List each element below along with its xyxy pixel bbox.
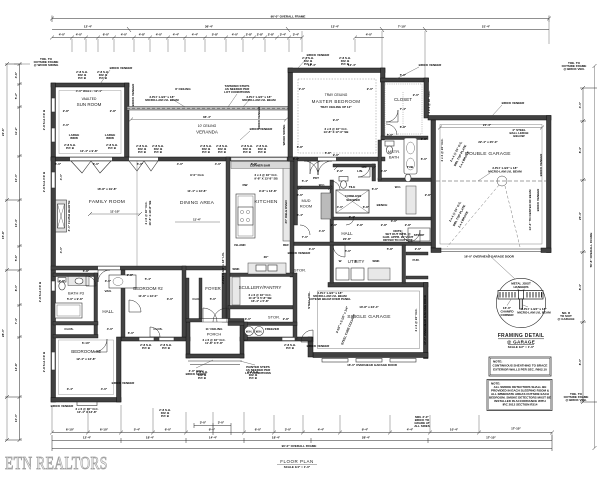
svg-text:21'-4": 21'-4" — [483, 123, 492, 127]
svg-text:7'-4": 7'-4" — [400, 107, 407, 111]
door arc master entry — [318, 161, 332, 175]
svg-text:5'-0": 5'-0" — [400, 73, 407, 77]
rotated brick veneer labels walls — [131, 83, 543, 345]
svg-text:4'-0": 4'-0" — [107, 327, 114, 331]
wall garage right — [547, 116, 552, 253]
porch step notes — [186, 360, 271, 376]
garage door marks single garage — [322, 359, 348, 363]
svg-text:BRICK VENEER: BRICK VENEER — [51, 404, 75, 408]
svg-text:5'-0": 5'-0" — [387, 133, 394, 137]
wall bedroom3 right — [117, 337, 122, 402]
svg-text:6'-0": 6'-0" — [165, 428, 172, 432]
svg-text:3'-0": 3'-0" — [245, 317, 252, 321]
svg-text:12'-4" x 9'-8": 12'-4" x 9'-8" — [80, 149, 99, 153]
svg-text:28'-0": 28'-0" — [1, 328, 5, 337]
svg-text:9'-4": 9'-4" — [209, 428, 216, 432]
svg-text:CLOSET: CLOSET — [394, 97, 412, 102]
wall bedroom2 right — [182, 266, 186, 337]
svg-text:5'-4": 5'-4" — [134, 428, 141, 432]
svg-text:12'-4": 12'-4" — [308, 63, 317, 67]
wall jog storage to garage — [308, 337, 313, 357]
room label sun room — [77, 97, 102, 107]
door arc bath3 — [86, 276, 96, 286]
door arc mstr bath — [358, 165, 370, 177]
garage interior dim 21'-4" — [438, 123, 544, 130]
wall master right step — [381, 68, 386, 82]
svg-text:5'-2": 5'-2" — [14, 92, 18, 99]
fireplace family room — [56, 200, 67, 232]
svg-text:2'-8": 2'-8" — [59, 279, 66, 283]
wall shower/mstrbath divider — [372, 164, 376, 181]
mstr wc — [385, 141, 394, 154]
left dim slashes — [5, 62, 22, 442]
single garage beam note — [309, 291, 351, 301]
steel ball ledge note — [509, 128, 528, 138]
tray ceiling dotted master — [298, 79, 376, 153]
svg-text:BRICK VENEER: BRICK VENEER — [536, 188, 540, 212]
family room dim string — [88, 210, 142, 217]
wall master bottom — [288, 157, 385, 161]
svg-text:P.P. B: P.P. B — [66, 146, 75, 150]
utility washer dryer — [336, 268, 390, 280]
wall bath3 right — [94, 273, 98, 337]
window labels bottom walls — [75, 343, 296, 418]
svg-text:9'-4": 9'-4" — [362, 428, 369, 432]
svg-text:4'-4": 4'-4" — [173, 33, 180, 37]
svg-text:DOUBLE GARAGE: DOUBLE GARAGE — [465, 151, 511, 157]
svg-text:P.P. B: P.P. B — [218, 150, 227, 154]
window labels above sunroom — [76, 70, 109, 80]
wall family bottom — [51, 266, 227, 270]
svg-text:@ BRICK VEN.: @ BRICK VEN. — [563, 67, 584, 71]
annotation min riser note bottom — [414, 415, 430, 428]
svg-text:11'-8" x 13'-0": 11'-8" x 13'-0" — [138, 294, 158, 298]
opening bar kitchen — [231, 158, 287, 161]
water heaters — [245, 327, 264, 336]
left header note TOE TO STUBBED FRAME — [14, 57, 59, 67]
svg-text:FLOOR PLAN: FLOOR PLAN — [280, 459, 314, 464]
svg-text:SCALE 1/4" = 1'-0": SCALE 1/4" = 1'-0" — [284, 465, 311, 469]
wall left outer lower — [51, 157, 56, 402]
family room ceiling break line — [136, 161, 138, 266]
inner outline sunroom — [59, 91, 121, 154]
wall bath3 top — [53, 273, 98, 277]
svg-text:VAULTED: VAULTED — [82, 97, 97, 101]
wall sunroom left — [51, 83, 56, 160]
middle cluster annotations — [297, 133, 432, 253]
svg-text:2'-8": 2'-8" — [110, 109, 117, 113]
svg-text:3'-0": 3'-0" — [391, 219, 398, 223]
svg-text:BATH: BATH — [389, 155, 399, 160]
bath3 vanity sink — [68, 277, 89, 286]
window bedroom2 bottom — [139, 337, 154, 340]
window label cluster template uses — [75, 53, 525, 418]
svg-text:WOOD SIDING: WOOD SIDING — [282, 124, 286, 145]
svg-text:2 x 4 @ 24" O.C.: 2 x 4 @ 24" O.C. — [414, 308, 418, 331]
svg-text:STOR.: STOR. — [294, 268, 306, 273]
svg-text:BATH #3: BATH #3 — [68, 291, 85, 296]
svg-text:3'-4": 3'-4" — [293, 33, 300, 37]
extra density bath3/bed zone — [59, 269, 290, 391]
svg-text:4'-0": 4'-0" — [337, 205, 344, 209]
wall garage left — [431, 120, 436, 248]
svg-text:22'-6": 22'-6" — [1, 127, 5, 136]
svg-text:2 x 4 @ 16" O.C.: 2 x 4 @ 16" O.C. — [427, 90, 431, 113]
svg-text:16'-4" x 5'-8": 16'-4" x 5'-8" — [251, 299, 270, 303]
svg-text:3'-0": 3'-0" — [218, 421, 225, 425]
svg-text:@ GARAGE: @ GARAGE — [507, 340, 535, 345]
svg-text:6'-10": 6'-10" — [66, 428, 75, 432]
svg-text:4'-0" FLUSH HEARTH: 4'-0" FLUSH HEARTH — [67, 201, 71, 232]
svg-text:2'-8": 2'-8" — [283, 317, 290, 321]
left wall rotated window labels — [38, 109, 46, 372]
svg-text:P.P. B: P.P. B — [154, 150, 163, 154]
svg-text:8'-0": 8'-0" — [14, 284, 18, 291]
svg-text:6'-8": 6'-8" — [363, 205, 370, 209]
svg-text:6'-10": 6'-10" — [100, 428, 109, 432]
wall foyer bottom — [186, 319, 244, 323]
svg-text:BELOW: BELOW — [513, 134, 524, 138]
dining dim string — [175, 218, 220, 223]
svg-text:W.C.: W.C. — [319, 183, 326, 187]
room label porch — [206, 327, 224, 337]
svg-text:TILE: TILE — [349, 185, 356, 189]
svg-text:4'-0": 4'-0" — [121, 33, 128, 37]
wall utility/single garage top — [328, 283, 428, 288]
svg-text:11'-10": 11'-10" — [110, 210, 120, 214]
door arc bedroom2 — [129, 300, 141, 312]
svg-text:18'-4": 18'-4" — [146, 436, 155, 440]
svg-text:13'-8" X 17'-0" SB: 13'-8" X 17'-0" SB — [324, 130, 350, 134]
svg-text:2'-8 S.H. P.P. B: 2'-8 S.H. P.P. B — [38, 281, 42, 302]
wall bedroom3 bottom — [51, 398, 121, 403]
svg-text:5'-4": 5'-4" — [145, 277, 152, 281]
door arc bedroom3 — [94, 339, 107, 352]
svg-text:2'-8": 2'-8" — [331, 223, 338, 227]
svg-text:2'-8": 2'-8" — [257, 33, 264, 37]
svg-text:4'-4": 4'-4" — [192, 33, 199, 37]
room label veranda — [196, 124, 218, 135]
svg-text:9'-8" x 13'-8": 9'-8" x 13'-8" — [259, 189, 278, 193]
diagonal stud note garage lower — [448, 200, 469, 228]
svg-text:KITCHEN: KITCHEN — [254, 199, 277, 205]
wall above shower — [333, 164, 375, 167]
dimension lines right — [558, 61, 597, 448]
inner outline single garage — [318, 291, 420, 349]
window storage bottom — [282, 337, 295, 340]
svg-text:10' CEILING: 10' CEILING — [198, 124, 217, 128]
svg-text:4'-8": 4'-8" — [139, 33, 146, 37]
svg-text:REF: REF — [283, 243, 289, 247]
svg-text:P.P. B: P.P. B — [78, 76, 87, 80]
svg-text:4'-4": 4'-4" — [318, 428, 325, 432]
right dim slashes — [581, 64, 597, 450]
svg-text:TRAY CEILING: TRAY CEILING — [325, 93, 348, 97]
svg-text:4'-4": 4'-4" — [407, 428, 414, 432]
opening family to hall — [98, 267, 120, 270]
window labels above master — [302, 56, 351, 66]
svg-text:13'-8" x 23'-4": 13'-8" x 23'-4" — [359, 305, 379, 309]
svg-text:4'-0": 4'-0" — [101, 387, 108, 391]
svg-text:WDW: WDW — [106, 136, 114, 140]
dimension lines left — [1, 64, 22, 440]
svg-text:MICRO-LAM LVL BEAM: MICRO-LAM LVL BEAM — [242, 98, 276, 102]
wall porch bottom — [186, 354, 244, 358]
window sunroom left 2 — [52, 128, 56, 142]
dimension line top tier2 — [52, 25, 549, 33]
svg-text:BENCH: BENCH — [377, 203, 388, 207]
wall kitchen right vertical — [290, 161, 294, 277]
svg-text:3'-8": 3'-8" — [421, 137, 428, 141]
porch steps — [188, 360, 242, 362]
svg-text:ROOM: ROOM — [300, 204, 312, 209]
svg-text:SINK: SINK — [232, 267, 240, 271]
svg-text:4'-0": 4'-0" — [366, 33, 373, 37]
svg-text:7'-10": 7'-10" — [398, 25, 407, 29]
svg-text:3'-0": 3'-0" — [200, 421, 207, 425]
svg-text:BRICK STOOP: BRICK STOOP — [186, 372, 207, 376]
dimension line bottom overall — [52, 435, 552, 451]
sunroom extra dims — [55, 109, 258, 166]
svg-text:2'-8 S.H. P.P. B: 2'-8 S.H. P.P. B — [42, 351, 46, 372]
svg-text:2'-6": 2'-6" — [415, 247, 422, 251]
svg-text:2'-8": 2'-8" — [246, 33, 253, 37]
wall garage door bottom — [431, 248, 551, 253]
svg-text:2 x 4 @ 24" O.C.: 2 x 4 @ 24" O.C. — [440, 138, 444, 161]
title floor plan — [277, 459, 317, 469]
svg-text:11'-4" x 13'-8": 11'-4" x 13'-8" — [187, 189, 207, 193]
svg-text:17'-10": 17'-10" — [486, 436, 496, 440]
svg-text:10'-0": 10'-0" — [14, 173, 18, 182]
svg-text:P.P. B: P.P. B — [202, 150, 211, 154]
svg-text:21'-4": 21'-4" — [482, 25, 491, 29]
room label mstr bath — [388, 149, 400, 160]
wall bottom storage run — [240, 337, 312, 341]
svg-text:P.P. B: P.P. B — [162, 346, 171, 350]
svg-text:MUD: MUD — [301, 198, 310, 203]
svg-text:4'-0": 4'-0" — [578, 101, 582, 108]
framing detail circle — [488, 254, 551, 328]
room label fur — [413, 258, 420, 262]
svg-text:EXTERIOR WALLS PER SEC. R602.1: EXTERIOR WALLS PER SEC. R602.10 — [493, 368, 547, 372]
svg-text:30" DBLE OVEN: 30" DBLE OVEN — [284, 200, 288, 223]
wall scullery bottom — [228, 306, 294, 310]
dimension line top overall 90'-0" — [50, 14, 551, 22]
hall bath upper tub (bath2) — [109, 275, 136, 288]
svg-text:FOYER: FOYER — [205, 286, 221, 291]
door arc master second — [304, 161, 318, 175]
svg-text:LIN.: LIN. — [357, 169, 363, 173]
window bath3 left — [52, 281, 56, 291]
svg-text:2'-0": 2'-0" — [337, 169, 344, 173]
wall scullery right / storage — [293, 273, 297, 339]
svg-text:WDW: WDW — [70, 136, 78, 140]
svg-text:5'-0": 5'-0" — [210, 297, 217, 301]
note box 2 — [487, 380, 552, 411]
svg-text:4'-0": 4'-0" — [215, 162, 222, 166]
svg-text:56'-8" OVERALL FRAME: 56'-8" OVERALL FRAME — [589, 233, 593, 268]
svg-text:2'-0": 2'-0" — [367, 87, 374, 91]
wall closet top — [381, 78, 429, 82]
svg-text:CLOS.: CLOS. — [64, 327, 73, 331]
svg-text:3'-4": 3'-4" — [280, 33, 287, 37]
svg-text:4'-0": 4'-0" — [232, 33, 239, 37]
svg-text:3'-0": 3'-0" — [285, 428, 292, 432]
window sunroom left 1 — [52, 98, 56, 112]
svg-text:HALL: HALL — [341, 231, 353, 236]
svg-text:2'-8 S.H. P.P. B: 2'-8 S.H. P.P. B — [42, 171, 46, 192]
svg-text:13'-4": 13'-4" — [331, 25, 340, 29]
wall master suite left — [288, 68, 293, 161]
wall bottom bedroom2/hall — [121, 337, 190, 341]
dimension line top tier3 with ticks — [50, 33, 384, 40]
window bedroom3 left — [52, 352, 56, 370]
svg-text:@ BRICK VEN.: @ BRICK VEN. — [565, 398, 586, 402]
wall utility left — [330, 245, 334, 283]
svg-text:6'-0": 6'-0" — [55, 162, 62, 166]
svg-text:36'-4": 36'-4" — [205, 25, 214, 29]
svg-text:9'-0": 9'-0" — [333, 153, 340, 157]
dimension line bottom tier B — [52, 436, 552, 444]
svg-text:2-PLY 1-3/4" x 18" LVL: 2-PLY 1-3/4" x 18" LVL — [221, 252, 225, 284]
door opening french sunroom-family — [70, 158, 112, 161]
wall mud room right — [330, 180, 334, 242]
wall clos bottom — [53, 335, 98, 339]
wall utility right — [402, 245, 406, 283]
kitchen island — [236, 194, 255, 238]
svg-text:36'-4": 36'-4" — [203, 115, 212, 119]
svg-text:10'-4": 10'-4" — [14, 218, 18, 227]
svg-text:4'-6": 4'-6" — [319, 229, 326, 233]
svg-text:4'-0": 4'-0" — [59, 33, 66, 37]
svg-text:4'-0": 4'-0" — [59, 246, 63, 253]
dimension extension verticals bottom — [52, 405, 552, 440]
mud room cubbies — [321, 193, 331, 219]
cabinet column right of bath — [406, 186, 416, 214]
svg-text:6'-0": 6'-0" — [128, 331, 135, 335]
svg-text:6'-8": 6'-8" — [297, 145, 304, 149]
svg-text:STEEL COL.: STEEL COL. — [307, 291, 311, 309]
svg-text:BRICK VENEER: BRICK VENEER — [502, 101, 526, 105]
svg-text:8'-0": 8'-0" — [578, 358, 582, 365]
svg-text:STOOP: STOOP — [414, 233, 424, 237]
wall kitchen bottom / scullery top — [230, 273, 294, 277]
svg-text:4'-0": 4'-0" — [59, 173, 63, 180]
svg-text:@ GARAGE: @ GARAGE — [558, 317, 575, 321]
master bedroom extra dims — [293, 63, 420, 161]
door arc closet — [386, 110, 398, 122]
svg-text:TRAY CEILING UP 12": TRAY CEILING UP 12" — [320, 105, 352, 109]
wall hall bottom / utility top — [294, 242, 431, 246]
svg-text:STOR.: STOR. — [268, 315, 280, 320]
svg-text:12'-4" x 13'-8": 12'-4" x 13'-8" — [76, 357, 96, 361]
mstr bath tub — [404, 138, 417, 174]
svg-text:ETN REALTORS: ETN REALTORS — [5, 455, 108, 474]
svg-text:2'-8": 2'-8" — [425, 193, 432, 197]
svg-text:BEDROOM #2: BEDROOM #2 — [133, 286, 163, 291]
svg-text:BRICK VENEER: BRICK VENEER — [110, 66, 134, 70]
svg-text:22'-4" x 25'-0": 22'-4" x 25'-0" — [478, 140, 498, 144]
svg-text:CLOS.: CLOS. — [153, 327, 162, 331]
svg-text:28'-4": 28'-4" — [362, 436, 371, 440]
svg-text:3'-0": 3'-0" — [167, 297, 174, 301]
svg-text:12'-4": 12'-4" — [348, 63, 357, 67]
svg-text:MICRO-LAM LVL BEAM: MICRO-LAM LVL BEAM — [517, 311, 551, 315]
wall mudroom left / kitchen — [294, 157, 298, 225]
wall fur closet — [406, 252, 428, 255]
svg-text:SINK: SINK — [372, 259, 380, 263]
svg-text:9'-0" CLG: 9'-0" CLG — [190, 173, 204, 177]
wall hall top master — [333, 217, 431, 220]
svg-text:5'-4": 5'-4" — [302, 179, 309, 183]
svg-text:SUN ROOM: SUN ROOM — [77, 102, 102, 107]
svg-text:P.P. B: P.P. B — [258, 150, 267, 154]
svg-text:2'-8": 2'-8" — [381, 223, 388, 227]
svg-text:VERANDA: VERANDA — [196, 130, 218, 135]
svg-text:P.P. B: P.P. B — [286, 346, 295, 350]
svg-text:MICRO-LAM LVL BEAM: MICRO-LAM LVL BEAM — [488, 170, 522, 174]
bath3 toilet — [58, 278, 66, 291]
svg-text:5'-6": 5'-6" — [14, 254, 18, 261]
svg-text:EXTEND BEAM OVER PANEL: EXTEND BEAM OVER PANEL — [309, 297, 351, 301]
svg-text:HALL: HALL — [102, 309, 114, 314]
svg-text:6'-4": 6'-4" — [297, 213, 304, 217]
svg-text:P.P. B: P.P. B — [243, 150, 252, 154]
svg-text:5'-0": 5'-0" — [345, 249, 352, 253]
wall shower box — [336, 190, 369, 213]
svg-text:PORCH: PORCH — [207, 332, 222, 337]
svg-text:7'-4": 7'-4" — [14, 317, 18, 324]
svg-text:5'-0" x 9'-8": 5'-0" x 9'-8" — [67, 297, 84, 301]
wall single garage bottom — [313, 353, 428, 358]
svg-text:CLO.: CLO. — [192, 297, 199, 301]
svg-text:12'-4" X 13'-8": 12'-4" X 13'-8" — [77, 410, 98, 414]
extra density middle cluster — [297, 137, 428, 263]
svg-text:SCULLERY/PANTRY: SCULLERY/PANTRY — [239, 285, 282, 290]
svg-text:17'-10": 17'-10" — [511, 427, 521, 431]
svg-text:6'-8": 6'-8" — [251, 162, 258, 166]
svg-text:IRC 2012 SECTION R314: IRC 2012 SECTION R314 — [503, 403, 538, 407]
room label mud room — [300, 198, 312, 209]
svg-text:FREEZER: FREEZER — [265, 327, 280, 331]
svg-text:20'-8": 20'-8" — [343, 237, 352, 241]
scullery counters — [232, 277, 240, 305]
svg-text:TUB: TUB — [407, 165, 414, 169]
dimension lines bottom — [50, 421, 554, 436]
wall closet right — [424, 78, 429, 118]
left wall interior dims — [59, 173, 63, 253]
svg-text:5'-8": 5'-8" — [325, 151, 332, 155]
svg-text:BRICK VENEER: BRICK VENEER — [250, 127, 274, 131]
svg-text:MASTER BEDROOM: MASTER BEDROOM — [312, 99, 361, 104]
door arc mud from veranda — [310, 161, 323, 174]
wall bath3 closet top — [53, 322, 98, 326]
svg-text:6'-10": 6'-10" — [82, 341, 91, 345]
svg-text:LIN: LIN — [362, 165, 367, 169]
dining kitchen extra — [190, 173, 289, 271]
svg-text:BRICK VENEER: BRICK VENEER — [307, 53, 331, 57]
svg-text:90'-0" OVERALL FRAME: 90'-0" OVERALL FRAME — [282, 444, 317, 448]
wc oval mstr — [405, 174, 411, 182]
wall closet bottom — [381, 136, 428, 140]
wall storage top — [228, 322, 297, 326]
svg-text:FRAMING DETAIL: FRAMING DETAIL — [498, 333, 545, 339]
diagonal stud note garage upper — [449, 140, 470, 168]
window labels above veranda wall — [136, 144, 268, 154]
svg-text:DINING AREA: DINING AREA — [180, 200, 215, 206]
wall sunroom right — [125, 83, 130, 160]
door arc single garage side — [301, 330, 313, 342]
